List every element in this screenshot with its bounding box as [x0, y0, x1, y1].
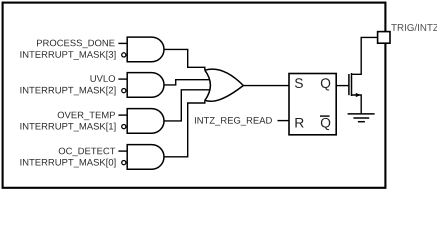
- label INTERRUPT_MASK[3]: [20, 51, 115, 60]
- wire latch Q output to Q1 gate: [336, 85, 349, 87]
- label TRIG/INTZ: [391, 24, 437, 31]
- wire U3 output to OR input 3: [164, 90, 210, 121]
- label INTERRUPT_MASK[1]: [20, 123, 115, 132]
- wire U4 output to OR input 4: [164, 100, 205, 156]
- AND gate U2: [127, 73, 164, 98]
- wire INTZ_REG_READ to latch R input: [278, 120, 290, 122]
- wire U1 output to OR input 1: [164, 49, 205, 70]
- chip boundary: [3, 3, 386, 188]
- AND gate U1: [127, 37, 164, 62]
- AND gate U3: [127, 109, 164, 134]
- transistor Q1 source arrow: [356, 93, 361, 97]
- OR gate U5: [205, 69, 244, 101]
- AND gate U4: [127, 145, 164, 170]
- latch pin label Q: [321, 78, 330, 90]
- latch pin label R: [295, 118, 303, 127]
- label OC_DETECT: [59, 148, 116, 156]
- inverter bubble U4 mask input: [122, 161, 126, 165]
- label OVER_TEMP: [58, 112, 115, 120]
- label UVLO: [91, 75, 116, 82]
- ground: [348, 114, 375, 122]
- inverter bubble U2 mask input: [122, 89, 126, 93]
- transistor Q1 drain wire to pin: [352, 37, 378, 74]
- transistor Q1 source wire: [352, 95, 362, 114]
- wire OVER_TEMP to U3 input: [118, 114, 127, 116]
- SR latch U6: [289, 74, 336, 135]
- latch pin label Qbar: [321, 118, 330, 130]
- label PROCESS_DONE: [37, 40, 115, 48]
- inverter bubble U3 mask input: [122, 125, 126, 129]
- transistor Q1 channel bar: [351, 73, 353, 96]
- transistor Q1 gate bar: [348, 74, 350, 95]
- pin TRIG/INTZ: [378, 32, 390, 44]
- wire OC_DETECT to U4 input: [118, 150, 127, 152]
- wire U2 output to OR input 2: [164, 80, 210, 85]
- Qbar overline: [320, 115, 330, 117]
- label INTERRUPT_MASK[0]: [20, 159, 115, 168]
- latch pin label S: [295, 78, 303, 88]
- label INTZ_REG_READ: [195, 117, 272, 125]
- inverter bubble U1 mask input: [122, 53, 126, 57]
- wire U5 output to latch S input: [243, 85, 289, 87]
- wire UVLO to U2 input: [118, 78, 127, 80]
- wire PROCESS_DONE to U1 input: [118, 42, 127, 44]
- label INTERRUPT_MASK[2]: [20, 87, 115, 96]
